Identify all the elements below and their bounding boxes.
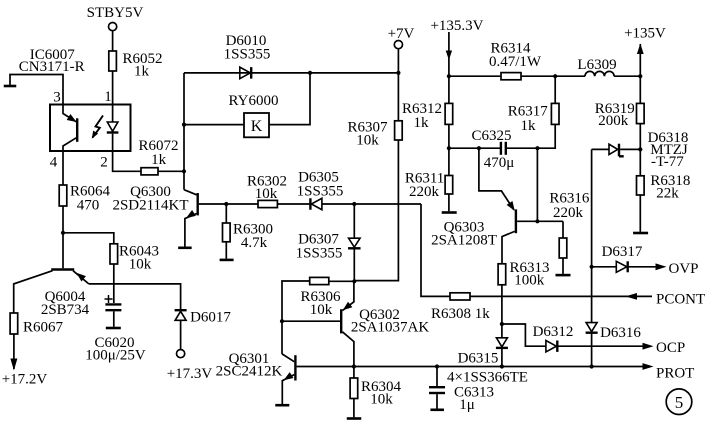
label circled 5 <box>666 389 692 415</box>
junction top rail end <box>396 71 400 75</box>
diode LED of IC6007 <box>107 105 119 152</box>
wire D6307 to emitter node <box>353 248 355 281</box>
wire C6020 to ground <box>113 311 115 326</box>
svg-text:2: 2 <box>100 155 108 171</box>
pin 1 label <box>104 89 112 105</box>
label Q6303 <box>431 219 497 248</box>
ground R6318 <box>633 232 648 235</box>
wire R6319 to zener node <box>639 124 641 150</box>
label R6064 <box>70 184 111 214</box>
label OVP <box>669 261 699 277</box>
wire PROT rail <box>297 366 646 368</box>
resistor R6306 <box>310 277 329 284</box>
junction node A <box>61 231 65 235</box>
resistor R6319 <box>637 103 645 123</box>
capacitor C6020 <box>105 304 121 310</box>
label R6067 <box>23 320 64 336</box>
wire D6316 to PROT <box>591 333 593 367</box>
svg-text:10k: 10k <box>310 302 333 318</box>
junction zener node <box>638 147 642 151</box>
wire Q6300 collector rail <box>183 73 185 190</box>
junction +135V node <box>638 74 642 78</box>
junction emitter node <box>352 279 356 283</box>
label R6319 <box>595 101 635 129</box>
junction node C <box>500 322 504 326</box>
svg-text:D6315: D6315 <box>458 351 499 367</box>
svg-text:1k: 1k <box>151 152 167 168</box>
svg-text:RY6000: RY6000 <box>228 93 278 109</box>
junction PROT at D6316 <box>590 364 594 368</box>
junction PROT at C6313 <box>435 364 439 368</box>
resistor R6316 <box>559 238 567 258</box>
wire +135V up <box>639 44 641 103</box>
label IC6007 <box>19 47 85 75</box>
wire D6017 to +17.3V <box>180 320 182 349</box>
wire D6312 to OCP <box>557 345 646 347</box>
wire R6304 to ground <box>353 399 355 418</box>
label D6316 <box>600 325 641 341</box>
wire OVP rail top <box>592 148 609 150</box>
ground R6300 <box>220 259 234 262</box>
label L6309 <box>577 57 616 73</box>
resistor R6308 <box>450 293 470 300</box>
svg-text:-T-77: -T-77 <box>651 154 684 170</box>
wire R6312 to rail <box>448 124 450 148</box>
label C6313 <box>454 385 494 414</box>
wire R6072 to collector node <box>158 170 184 172</box>
wire node B to D6307 <box>353 204 355 238</box>
wire relay right lead <box>269 73 310 125</box>
svg-text:OCP: OCP <box>656 340 685 356</box>
node +7V terminal <box>394 41 402 49</box>
svg-text:1k: 1k <box>134 64 150 80</box>
svg-text:2SA1037AK: 2SA1037AK <box>351 320 430 336</box>
label C6020 <box>85 335 146 364</box>
wire node C to D6312 <box>502 324 546 346</box>
svg-text:2SC2412K: 2SC2412K <box>216 364 283 380</box>
wire R6300 to ground <box>225 242 227 259</box>
wire base node to R6302 <box>226 203 258 205</box>
transistor Q6303 <box>502 201 516 264</box>
svg-text:STBY5V: STBY5V <box>87 5 144 21</box>
svg-text:22k: 22k <box>656 186 679 202</box>
label Q6300 <box>112 184 188 214</box>
wire R6317 top <box>554 76 556 103</box>
wire +135.3V to R6314 <box>449 75 501 77</box>
resistor R6072 <box>141 168 158 175</box>
arrow +135V <box>637 44 644 55</box>
wire to L6309 <box>555 75 585 77</box>
label R6313 <box>509 260 549 288</box>
capacitor C6325 <box>501 142 506 155</box>
wire base drop <box>536 148 538 221</box>
label R6308 1k <box>431 306 490 322</box>
resistor R6313 <box>498 264 506 285</box>
wire R6311 to ground <box>448 194 450 211</box>
svg-text:+135.3V: +135.3V <box>430 18 483 34</box>
svg-text:C6325: C6325 <box>471 128 511 144</box>
wire node A to R6043 <box>63 233 114 244</box>
svg-text:470μ: 470μ <box>484 155 515 171</box>
svg-text:1SS355: 1SS355 <box>224 47 271 63</box>
svg-text:+17.3V: +17.3V <box>167 366 213 382</box>
wire emitter node to R6306 <box>329 280 355 282</box>
resistor R6318 <box>637 176 645 195</box>
wire PROT to R6304 <box>353 367 355 379</box>
wire relay left lead <box>184 124 244 126</box>
wire node A to Q6004 base <box>62 233 64 268</box>
label +135V <box>624 26 666 42</box>
label PROT <box>656 366 694 382</box>
junction PROT at D6315 <box>500 364 504 368</box>
diode D6305 <box>310 198 322 210</box>
transistor Q6302 <box>341 281 354 366</box>
junction node B <box>352 202 356 206</box>
label 4x1SS366TE <box>447 370 528 386</box>
wire D6315 to PROT <box>501 348 503 367</box>
wire top rail to +7V <box>184 72 398 74</box>
svg-text:D6316: D6316 <box>600 325 641 341</box>
svg-text:100k: 100k <box>514 272 545 288</box>
wire to R6300 <box>225 204 227 223</box>
resistor R6304 <box>350 378 358 399</box>
wire PCONT branch <box>421 204 450 296</box>
wire L6309 to +135V node <box>614 75 640 77</box>
label R6314 <box>489 41 542 70</box>
label +17.2V <box>2 372 48 388</box>
diode D6317 <box>616 261 627 272</box>
svg-text:220k: 220k <box>553 205 584 221</box>
capacitor C6313 <box>429 387 445 393</box>
label RY6000 <box>228 93 278 109</box>
ground Q6301 emitter <box>275 404 289 407</box>
label R6318 <box>650 173 690 202</box>
wire D6305 to node B <box>322 203 354 205</box>
svg-text:R6308 1k: R6308 1k <box>431 306 490 322</box>
wire pin 2 to R6072 <box>113 151 141 171</box>
svg-text:1k: 1k <box>414 115 430 131</box>
wire R6314 to R6317 node <box>521 75 555 77</box>
wire Q6302 base node to Q6301 collector <box>281 321 283 354</box>
relay RY6000 box <box>244 113 269 137</box>
svg-text:D6017: D6017 <box>190 310 231 326</box>
wire R6316 to ground <box>562 258 564 274</box>
label D6312 <box>533 324 574 340</box>
junction Q6302 base node <box>280 319 284 323</box>
light arrow inside IC6007 <box>92 116 103 139</box>
op-amp U1 optocoupler IC6007 box <box>50 105 131 152</box>
wire R6312 down <box>448 76 450 103</box>
label D6318 <box>648 130 689 170</box>
pin 2 label <box>100 155 108 171</box>
wire R6306 to Q6302 base node <box>282 281 310 321</box>
junction PROT at Q6302 collector <box>352 364 356 368</box>
junction rail at Q6303 emitter <box>477 146 481 150</box>
junction collector node <box>182 169 186 173</box>
junction top rail at relay <box>308 71 312 75</box>
label R6312 <box>402 101 442 131</box>
label +135.3V <box>430 18 483 34</box>
label PCONT <box>656 291 705 307</box>
label STBY5V <box>87 5 144 21</box>
transistor Q6301 <box>282 354 295 404</box>
svg-text:OVP: OVP <box>669 261 699 277</box>
label R6300 <box>233 222 273 252</box>
ground R6316 <box>556 274 571 277</box>
wire base to R6316 <box>562 221 564 238</box>
label R6316 <box>549 191 590 221</box>
ground C6020 <box>106 327 121 330</box>
label D6317 <box>602 244 643 260</box>
wire C6325 rail <box>449 147 500 149</box>
svg-text:L6309: L6309 <box>577 57 616 73</box>
label Q6302 <box>351 307 430 336</box>
wire R6302 to D6305 <box>277 203 310 205</box>
svg-text:1SS355: 1SS355 <box>297 184 344 200</box>
svg-text:3: 3 <box>53 90 61 106</box>
inductor L6309 <box>585 71 614 76</box>
svg-text:R6317: R6317 <box>508 103 549 119</box>
diode D6318 MTZJ-T-77 zener <box>609 144 624 157</box>
transistor Q6300 <box>184 190 198 247</box>
svg-text:+135V: +135V <box>624 26 666 42</box>
svg-text:10k: 10k <box>370 392 393 408</box>
svg-text:1k: 1k <box>521 118 537 134</box>
wire C6313 to ground <box>436 394 438 408</box>
label D6010 <box>224 33 271 63</box>
wire Q6300 base <box>199 203 226 205</box>
ground Q6300 emitter <box>178 247 192 250</box>
diode D6312 <box>546 341 557 352</box>
junction rail at base drop <box>535 146 539 150</box>
resistor R6312 <box>445 103 453 124</box>
label R6043 <box>119 244 159 273</box>
wire OVP vertical <box>591 149 593 322</box>
transistor phototransistor of IC6007 <box>63 105 77 152</box>
svg-text:+7V: +7V <box>388 26 415 42</box>
junction relay left <box>182 123 186 127</box>
wire D6317 to OVP <box>629 266 657 268</box>
svg-text:220k: 220k <box>409 184 440 200</box>
svg-text:5: 5 <box>675 393 684 412</box>
junction R6317 node <box>553 74 557 78</box>
wire pin 4 to R6064 <box>62 151 64 185</box>
svg-text:D6317: D6317 <box>602 244 643 260</box>
svg-text:4×1SS366TE: 4×1SS366TE <box>447 370 528 386</box>
svg-text:1: 1 <box>104 89 112 105</box>
pin 3 label <box>53 90 61 106</box>
label R6072 <box>138 138 178 168</box>
label Q6004 <box>41 289 90 318</box>
wire Q6303 emitter <box>479 148 514 210</box>
svg-text:R6067: R6067 <box>23 320 64 336</box>
diode D6315 <box>496 338 508 348</box>
arrow OCP <box>643 343 654 350</box>
capacitor C6020 plus <box>105 295 113 303</box>
label R6311 <box>405 171 444 200</box>
ground R6304 <box>347 417 362 420</box>
diode D6316 <box>586 323 598 333</box>
junction OVP node <box>590 265 594 269</box>
svg-text:4.7k: 4.7k <box>241 235 268 251</box>
svg-text:10k: 10k <box>356 133 379 149</box>
resistor R6314 <box>501 73 521 80</box>
wire R6043 to C6020 <box>113 264 115 303</box>
label R6307 <box>347 120 388 149</box>
wire R6308 to PCONT <box>470 295 652 297</box>
resistor R6067 <box>10 313 18 334</box>
wire Q6303 base <box>517 220 563 222</box>
svg-text:2SA1208T: 2SA1208T <box>431 232 497 248</box>
ground C6313 <box>430 408 444 411</box>
resistor R6317 <box>551 103 559 124</box>
wire +135.3V down <box>448 32 450 76</box>
svg-text:100μ/25V: 100μ/25V <box>85 348 146 364</box>
svg-text:0.47/1W: 0.47/1W <box>489 54 542 70</box>
svg-text:PROT: PROT <box>656 366 694 382</box>
svg-text:1μ: 1μ <box>459 397 475 413</box>
wire R6307 to emitter node <box>354 140 398 281</box>
arrow PCONT <box>626 293 638 300</box>
label C6325 <box>471 128 514 171</box>
label R6052 <box>122 51 162 80</box>
svg-text:K: K <box>251 118 263 135</box>
label OCP <box>656 340 685 356</box>
label Q6301 <box>216 351 283 380</box>
diode D6017 <box>175 310 187 320</box>
wire STBY5V to R6052 <box>112 31 114 51</box>
wire R6064 to node A <box>62 206 64 233</box>
label +17.3V <box>167 366 213 382</box>
arrow OVP <box>656 263 667 270</box>
label D6017 <box>190 310 231 326</box>
resistor R6302 <box>258 200 277 207</box>
junction base drop <box>535 219 539 223</box>
label D6305 <box>297 170 344 200</box>
pin 4 label <box>50 155 58 171</box>
transistor Q6004 <box>14 270 89 314</box>
wire R6318 to ground <box>639 195 641 232</box>
svg-text:1SS355: 1SS355 <box>296 246 343 262</box>
ground R6311 <box>442 211 457 214</box>
svg-text:+17.2V: +17.2V <box>2 372 48 388</box>
wire Q6004 emitter rail <box>89 284 181 309</box>
arrow +135.3V <box>446 51 452 61</box>
svg-text:10k: 10k <box>255 186 278 202</box>
wire node B to PCONT branch corner <box>354 203 421 205</box>
wire R6313 to node C <box>501 285 503 324</box>
resistor R6064 <box>59 185 67 206</box>
wire +7V down <box>397 49 399 121</box>
svg-text:PCONT: PCONT <box>656 291 705 307</box>
arrow +17.2V <box>10 359 17 371</box>
svg-text:200k: 200k <box>598 113 629 129</box>
wire Q6302 base <box>282 320 340 322</box>
node +17.3V terminal <box>177 350 185 358</box>
label +7V <box>388 26 415 42</box>
resistor R6311 <box>445 176 453 195</box>
svg-text:2SD2114KT: 2SD2114KT <box>112 198 188 214</box>
svg-text:CN3171-R: CN3171-R <box>19 59 85 75</box>
diode D6307 <box>348 238 361 248</box>
wire D6318 to zener node <box>620 148 640 150</box>
ground <box>4 85 17 88</box>
arrow PROT <box>643 363 654 370</box>
junction +135.3V node <box>447 74 451 78</box>
junction base node <box>224 202 228 206</box>
label R6306 <box>300 289 341 318</box>
node STBY5V terminal <box>109 23 117 31</box>
label D6307 <box>296 232 343 262</box>
resistor R6307 <box>395 121 403 140</box>
label R6302 <box>247 174 287 203</box>
label R6317 <box>508 103 549 134</box>
resistor R6300 <box>223 223 231 242</box>
svg-text:10k: 10k <box>129 257 152 273</box>
svg-text:D6312: D6312 <box>533 324 574 340</box>
wire OVP node to D6317 <box>592 266 617 268</box>
label D6315 <box>458 351 499 367</box>
resistor R6318 wire <box>639 149 641 175</box>
wire C6325 to R6317 <box>507 124 555 148</box>
svg-text:470: 470 <box>77 198 100 214</box>
svg-text:2SB734: 2SB734 <box>41 302 90 318</box>
resistor R6043 <box>110 244 118 264</box>
wire node C to D6315 <box>501 324 503 338</box>
junction rail at R6311 <box>447 146 451 150</box>
wire PROT to C6313 <box>436 367 438 387</box>
svg-text:4: 4 <box>50 155 58 171</box>
resistor R6052 <box>109 51 117 71</box>
label R6304 <box>361 379 402 408</box>
resistor R6311 wire <box>448 148 450 175</box>
wire R6052 to optocoupler pin 1 <box>112 71 114 105</box>
wire R6067 to +17.2V <box>13 334 15 369</box>
wire ground to IC6007 pin 3 <box>10 75 63 105</box>
diode D6010 <box>240 67 251 79</box>
